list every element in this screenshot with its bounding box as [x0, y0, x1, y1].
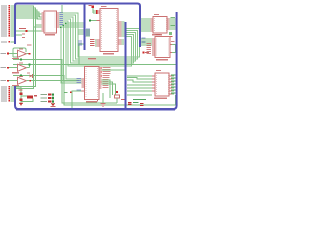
wire terminal to amp B	[9, 67, 18, 69]
driver U7 ULN2003A	[152, 70, 172, 99]
pin name labels right of U6	[103, 67, 111, 88]
ref label U2:B	[19, 63, 23, 64]
node label wire A	[19, 28, 26, 29]
small part near U6 lower left	[64, 92, 68, 93]
input terminal IN2	[1, 67, 7, 68]
pin number columns	[102, 10, 117, 50]
wire terminal to amp A	[9, 53, 18, 55]
bus vertical x125	[125, 22, 127, 108]
feedback loop wire amp A	[13, 48, 26, 57]
value label LM324	[12, 58, 19, 59]
op-amp U2:B	[18, 64, 27, 71]
ADC U5 ADC0808	[152, 34, 172, 61]
capacitors C2 C3 on bottom wire	[128, 102, 131, 103]
wire U6 pin11 to labels	[76, 90, 82, 92]
wires bus x139 to U5	[141, 39, 175, 53]
net labels left of U6	[77, 78, 82, 91]
junction dot	[20, 75, 22, 77]
capacitor C4 below bus x139	[142, 51, 144, 53]
ref label U1	[101, 6, 107, 7]
green note text bottom	[133, 99, 146, 103]
resistor label right of amps	[27, 44, 32, 45]
bus main ring top: left vertical + top horizontal + right drop	[15, 4, 140, 48]
op-amp U2:C	[18, 77, 27, 84]
wire bundle bus to U3 latch with nested corners	[16, 6, 44, 89]
long wire to right bus	[13, 64, 176, 66]
net label texts right of U4	[171, 17, 176, 26]
junction dot	[20, 59, 22, 61]
pin labels left of U5	[147, 41, 175, 54]
net labels right of bus x84	[78, 29, 90, 46]
component mark on stub wire	[22, 33, 25, 34]
resistor R1	[20, 93, 23, 96]
wires bus x139 to U4 left pins	[141, 19, 175, 31]
ref label U2:A	[19, 49, 23, 50]
junction dots on latch output tees	[60, 22, 66, 28]
wire rail to column x64 and bottom	[13, 76, 176, 106]
input terminal column J2 bottom-left	[1, 86, 10, 102]
XTAL circuit bottom centre	[102, 93, 104, 103]
net labels near bus x139	[142, 38, 146, 43]
wire bundle U3 outputs down	[59, 13, 140, 83]
net labels on latch outputs	[60, 12, 63, 25]
LED indicator circuit bottom left	[16, 87, 21, 93]
wire loop bottom to inverting input	[13, 56, 18, 58]
MCU U1 AT89C51	[97, 6, 122, 55]
net labels right of U7	[171, 75, 176, 94]
op-amp U2:A	[18, 50, 27, 57]
latch U6 74HC573	[82, 58, 102, 102]
input terminal IN1	[1, 53, 7, 54]
pin name labels left of U1 lower pins	[89, 5, 95, 46]
wires into U1 left pins	[90, 7, 125, 46]
ref label U2:C	[19, 76, 23, 77]
latch U3 74HC573	[42, 11, 60, 36]
value label LM324	[12, 85, 19, 86]
value label 74HC573	[45, 34, 55, 35]
bus bottom band	[16, 108, 175, 111]
decoder U4 74HC138	[151, 14, 170, 36]
crystal X1	[115, 95, 120, 98]
wires bus x125 to U7	[127, 76, 174, 94]
wire amp C output right	[26, 80, 79, 82]
switches SW1 SW2 SW3	[41, 94, 48, 102]
value label LM324	[12, 72, 19, 73]
wires terminal stubs to bus	[10, 6, 14, 42]
ground symbol for switches	[52, 103, 55, 105]
diode D near amp C	[27, 73, 30, 74]
wire amp A output	[26, 53, 30, 55]
input terminal IN3	[1, 80, 7, 81]
wire bus to bottom right	[127, 94, 152, 96]
wire terminal to amp C	[9, 80, 18, 82]
wires from U6 right pins down	[72, 70, 125, 108]
value label AT89C51	[103, 53, 114, 55]
junction dot	[26, 30, 28, 32]
ground symbol for LED chain	[20, 103, 23, 105]
LED D1	[21, 95, 27, 97]
capacitor C1 near U4	[169, 32, 172, 35]
transistor Q1	[20, 98, 23, 101]
bus right vertical	[15, 12, 177, 109]
wire amp B output up to long wire	[26, 65, 29, 68]
bus branch vertical x84	[84, 4, 86, 50]
ground GND under U6	[101, 104, 106, 107]
wire from bus x84 down-left	[62, 5, 90, 65]
junction dots near U1	[92, 6, 94, 8]
wire rail to column x62 and bottom	[13, 60, 117, 104]
input terminal column J1 (labels and pins)	[1, 5, 10, 43]
